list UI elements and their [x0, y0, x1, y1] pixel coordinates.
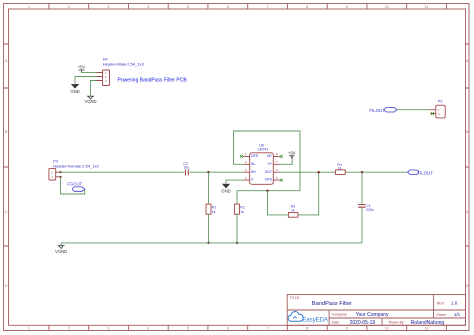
U8 pin8 no-connect X	[280, 155, 283, 158]
svg-text:11: 11	[425, 5, 429, 9]
svg-text:6: 6	[227, 5, 229, 9]
svg-text:2: 2	[68, 5, 70, 9]
svg-text:2: 2	[245, 160, 247, 164]
capacitor C2 10u	[183, 162, 189, 176]
svg-text:8: 8	[306, 5, 308, 9]
svg-text:P2: P2	[438, 99, 443, 103]
svg-text:OFS: OFS	[265, 178, 273, 182]
resistor R1 1k	[206, 204, 216, 214]
header P2	[431, 99, 446, 118]
U8 pin names	[251, 154, 273, 182]
junction OUT/R3	[318, 171, 320, 173]
wire P4 pin1 to FGOUT flag	[61, 177, 85, 194]
wire input row P4 pin2 to C2	[61, 171, 185, 173]
U8 pin numbers	[245, 152, 278, 180]
wire R2 bottom	[236, 214, 238, 243]
wire C1 bottom to rail	[361, 208, 363, 243]
wire R3 right up to OUT row	[298, 172, 319, 215]
svg-text:NC: NC	[267, 154, 273, 158]
svg-text:5: 5	[187, 5, 189, 9]
svg-text:6: 6	[227, 327, 229, 331]
junction input/R1	[207, 171, 209, 173]
junction R1/rail	[207, 242, 209, 244]
svg-text:IN-: IN-	[251, 162, 257, 166]
svg-text:OFS: OFS	[251, 154, 259, 158]
wire junction down to R3	[268, 191, 289, 215]
svg-text:1/1: 1/1	[454, 312, 461, 317]
svg-text:OUT: OUT	[265, 170, 273, 174]
svg-text:GND: GND	[221, 189, 230, 194]
svg-text:Drawn By:: Drawn By:	[389, 320, 405, 324]
power flag +5V (top left)	[78, 65, 86, 73]
svg-text:6: 6	[276, 168, 278, 172]
svg-text:Header-Male-2.54_1x3: Header-Male-2.54_1x3	[103, 62, 145, 67]
svg-text:2: 2	[68, 327, 70, 331]
svg-text:TITLE:: TITLE:	[290, 296, 301, 300]
svg-text:GND: GND	[70, 89, 79, 94]
U8 left pin stubs	[243, 156, 250, 180]
wire R1 top	[208, 172, 210, 204]
wire R4 to FILOUT flag	[345, 171, 407, 173]
svg-text:REV:: REV:	[437, 301, 445, 305]
svg-text:Your Company: Your Company	[356, 312, 389, 318]
op-amp U8 LM741	[240, 144, 283, 185]
bottom rail wire VGND	[61, 242, 362, 244]
svg-text:5: 5	[276, 176, 278, 180]
svg-text:3: 3	[245, 168, 247, 172]
svg-text:4: 4	[147, 327, 149, 331]
svg-text:Powering BandPass Filter PCB: Powering BandPass Filter PCB	[118, 77, 188, 83]
power flag +5V (mid)	[288, 150, 296, 158]
EasyEDA logo	[288, 312, 328, 324]
svg-text:1k: 1k	[212, 210, 216, 214]
svg-text:1k: 1k	[240, 210, 244, 214]
svg-text:11: 11	[425, 327, 429, 331]
junction feedback/R3 branch	[266, 190, 268, 192]
U8 pin1 no-connect X	[240, 155, 243, 158]
svg-text:+5V: +5V	[78, 65, 86, 70]
svg-text:VGND: VGND	[55, 249, 67, 254]
capacitor C1 220n	[358, 204, 374, 212]
net flag FILOUT (top right)	[369, 107, 397, 113]
svg-text:4: 4	[245, 176, 247, 180]
wire R1 bottom	[208, 214, 210, 243]
svg-text:2020-05-19: 2020-05-19	[350, 320, 376, 326]
wire C1 top	[361, 172, 363, 204]
svg-text:1: 1	[28, 327, 30, 331]
svg-text:4: 4	[147, 5, 149, 9]
svg-text:FGOUT: FGOUT	[67, 182, 82, 187]
U8 pin5 no-connect X	[280, 179, 283, 182]
svg-text:220n: 220n	[366, 208, 374, 212]
svg-text:V+: V+	[268, 162, 272, 166]
svg-text:Date:: Date:	[332, 320, 340, 324]
svg-text:BandPass Filter: BandPass Filter	[312, 301, 352, 307]
P2 pin2 no-connect X	[431, 112, 434, 115]
U8 right pin stubs	[273, 156, 280, 180]
junction R2/rail	[236, 242, 238, 244]
svg-text:LM741: LM741	[258, 148, 268, 152]
wire H4 pin3 to VGND	[91, 81, 97, 96]
resistor R4 1k	[336, 163, 346, 175]
svg-text:VGND: VGND	[84, 99, 96, 104]
svg-text:8: 8	[276, 152, 278, 156]
svg-text:1: 1	[245, 152, 247, 156]
wire U8 V- to GND	[226, 180, 243, 183]
svg-text:7: 7	[267, 5, 269, 9]
svg-text:EasyEDA: EasyEDA	[302, 317, 328, 323]
svg-text:IN+: IN+	[251, 170, 257, 174]
svg-text:Company:: Company:	[332, 313, 348, 317]
svg-text:Header-Female-2.54_1x2: Header-Female-2.54_1x2	[53, 163, 99, 168]
svg-text:9: 9	[346, 5, 348, 9]
svg-text:+5V: +5V	[288, 150, 296, 155]
header P4 Header-Female-2.54_1x2	[49, 160, 100, 180]
svg-text:9: 9	[346, 327, 348, 331]
svg-text:FILOUT: FILOUT	[369, 108, 385, 113]
svg-text:3: 3	[108, 327, 110, 331]
svg-text:8: 8	[306, 327, 308, 331]
net flag FILOUT (mid)	[408, 170, 434, 175]
ground VGND (bottom)	[55, 246, 67, 254]
svg-text:RolandNabong: RolandNabong	[411, 320, 445, 326]
svg-text:3: 3	[108, 5, 110, 9]
wire +5V to H4 pin1	[82, 71, 103, 73]
svg-text:7: 7	[276, 160, 278, 164]
svg-text:7: 7	[267, 327, 269, 331]
wire VGND stem	[60, 243, 62, 245]
header H4 Header-Male-2.54_1x3	[97, 58, 145, 86]
feedback wire U8 IN- loop	[234, 131, 301, 204]
svg-text:1: 1	[28, 5, 30, 9]
wire C2 to U8 IN+	[190, 171, 243, 173]
ground GND (mid)	[221, 184, 230, 194]
svg-text:10u: 10u	[183, 165, 189, 169]
title block	[287, 295, 465, 326]
svg-text:10: 10	[385, 5, 389, 9]
svg-text:FILOUT: FILOUT	[417, 170, 433, 175]
svg-text:5: 5	[187, 327, 189, 331]
wire H4 pin2 to GND	[75, 77, 97, 84]
ground GND (top left)	[70, 84, 79, 94]
junction R4/C1	[361, 171, 363, 173]
svg-text:1k: 1k	[291, 208, 295, 212]
svg-text:10: 10	[385, 327, 389, 331]
net flag FGOUT	[67, 182, 84, 192]
resistor R2 1k	[235, 204, 245, 214]
wire FILOUT to P2	[397, 109, 431, 111]
ground VGND (top)	[84, 96, 96, 104]
svg-text:1.0: 1.0	[451, 301, 458, 306]
wire U8 OUT row	[280, 171, 336, 173]
resistor R3 1k	[288, 204, 298, 217]
wire U8 V+ to +5V	[280, 156, 292, 165]
svg-text:Sheet:: Sheet:	[436, 313, 446, 317]
